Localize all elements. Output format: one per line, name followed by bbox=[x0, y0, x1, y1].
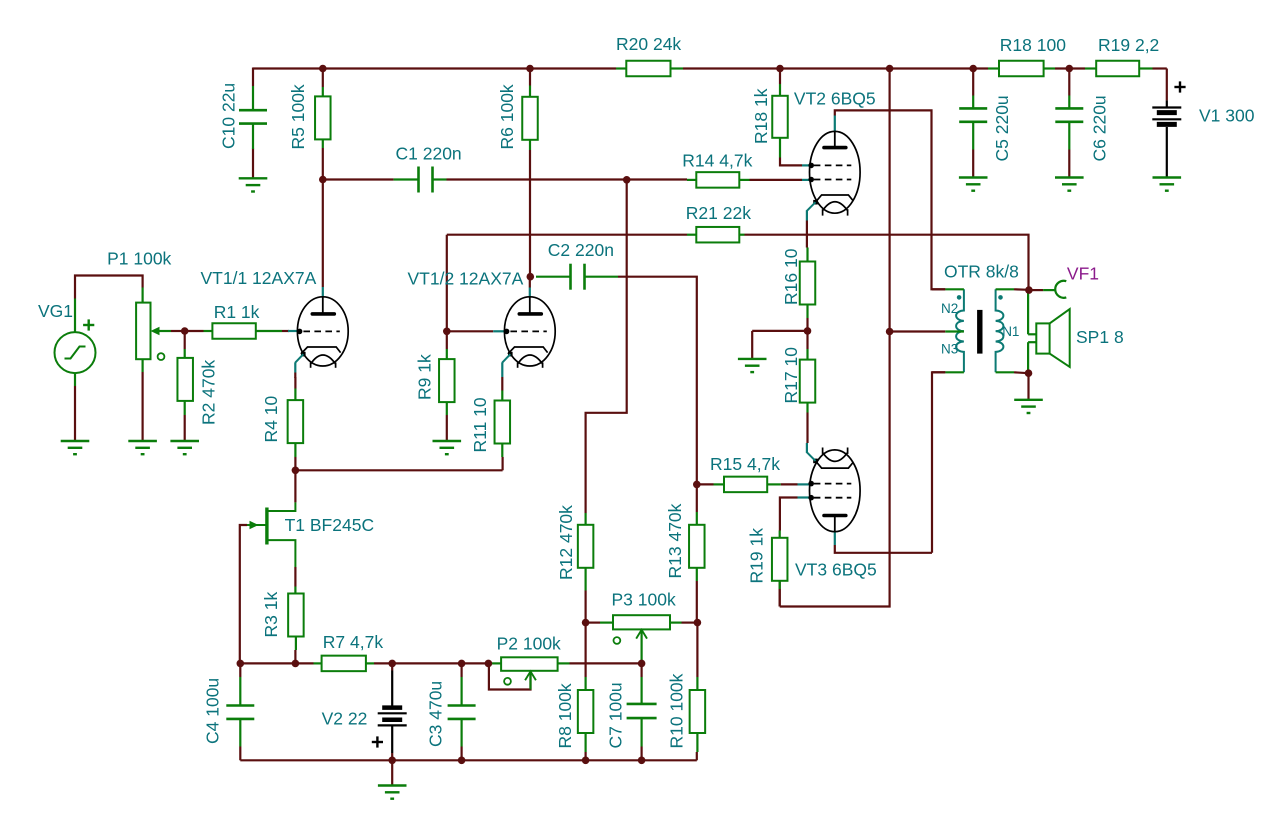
svg-text:R8 100k: R8 100k bbox=[555, 683, 575, 748]
svg-text:R13 470k: R13 470k bbox=[665, 503, 685, 578]
svg-text:R19 2,2: R19 2,2 bbox=[1098, 35, 1159, 55]
svg-text:VT2 6BQ5: VT2 6BQ5 bbox=[794, 88, 876, 108]
svg-text:OTR 8k/8: OTR 8k/8 bbox=[944, 262, 1019, 282]
svg-text:R15 4,7k: R15 4,7k bbox=[710, 454, 780, 474]
svg-text:R7 4,7k: R7 4,7k bbox=[323, 632, 384, 652]
svg-text:C2 220n: C2 220n bbox=[548, 240, 614, 260]
svg-text:P1 100k: P1 100k bbox=[107, 249, 171, 269]
svg-text:VG1: VG1 bbox=[38, 301, 73, 321]
svg-text:R14 4,7k: R14 4,7k bbox=[682, 150, 752, 170]
svg-text:R1 1k: R1 1k bbox=[214, 302, 260, 322]
svg-text:R20 24k: R20 24k bbox=[616, 34, 681, 54]
svg-text:T1 BF245C: T1 BF245C bbox=[285, 515, 374, 535]
svg-text:R3 1k: R3 1k bbox=[261, 592, 281, 638]
svg-text:VT1/1 12AX7A: VT1/1 12AX7A bbox=[201, 268, 317, 288]
svg-text:R10 100k: R10 100k bbox=[667, 673, 687, 748]
svg-text:R6 100k: R6 100k bbox=[497, 84, 517, 149]
svg-text:R2 470k: R2 470k bbox=[199, 360, 219, 425]
svg-text:SP1 8: SP1 8 bbox=[1076, 327, 1124, 347]
svg-text:R12 470k: R12 470k bbox=[556, 505, 576, 580]
svg-text:V1 300: V1 300 bbox=[1199, 106, 1255, 126]
svg-text:R19 1k: R19 1k bbox=[747, 528, 767, 584]
svg-text:VT3 6BQ5: VT3 6BQ5 bbox=[795, 560, 877, 580]
svg-text:R16 10: R16 10 bbox=[781, 248, 801, 305]
svg-text:VF1: VF1 bbox=[1067, 263, 1099, 283]
svg-text:C3 470u: C3 470u bbox=[426, 681, 446, 747]
svg-text:N3: N3 bbox=[941, 342, 958, 357]
svg-text:R18 100: R18 100 bbox=[1000, 35, 1066, 55]
svg-text:C7 100u: C7 100u bbox=[606, 682, 626, 748]
svg-text:R4 10: R4 10 bbox=[261, 396, 281, 443]
svg-text:N2: N2 bbox=[941, 301, 958, 316]
svg-text:R17 10: R17 10 bbox=[781, 347, 801, 404]
svg-text:N1: N1 bbox=[1002, 324, 1019, 339]
svg-text:R11 10: R11 10 bbox=[470, 397, 490, 452]
svg-text:P2 100k: P2 100k bbox=[497, 634, 561, 654]
svg-text:C6 220u: C6 220u bbox=[1090, 95, 1110, 161]
svg-text:R21 22k: R21 22k bbox=[686, 203, 751, 223]
svg-text:P3 100k: P3 100k bbox=[612, 590, 676, 610]
svg-text:R5 100k: R5 100k bbox=[288, 84, 308, 149]
svg-text:C10 22u: C10 22u bbox=[219, 83, 239, 149]
svg-text:C5 220u: C5 220u bbox=[992, 95, 1012, 161]
svg-text:V2 22: V2 22 bbox=[322, 708, 368, 728]
svg-text:VT1/2 12AX7A: VT1/2 12AX7A bbox=[408, 269, 524, 289]
svg-text:C4 100u: C4 100u bbox=[203, 678, 223, 744]
svg-text:R9 1k: R9 1k bbox=[415, 354, 435, 400]
svg-text:C1 220n: C1 220n bbox=[396, 144, 462, 164]
svg-text:R18 1k: R18 1k bbox=[751, 88, 771, 144]
